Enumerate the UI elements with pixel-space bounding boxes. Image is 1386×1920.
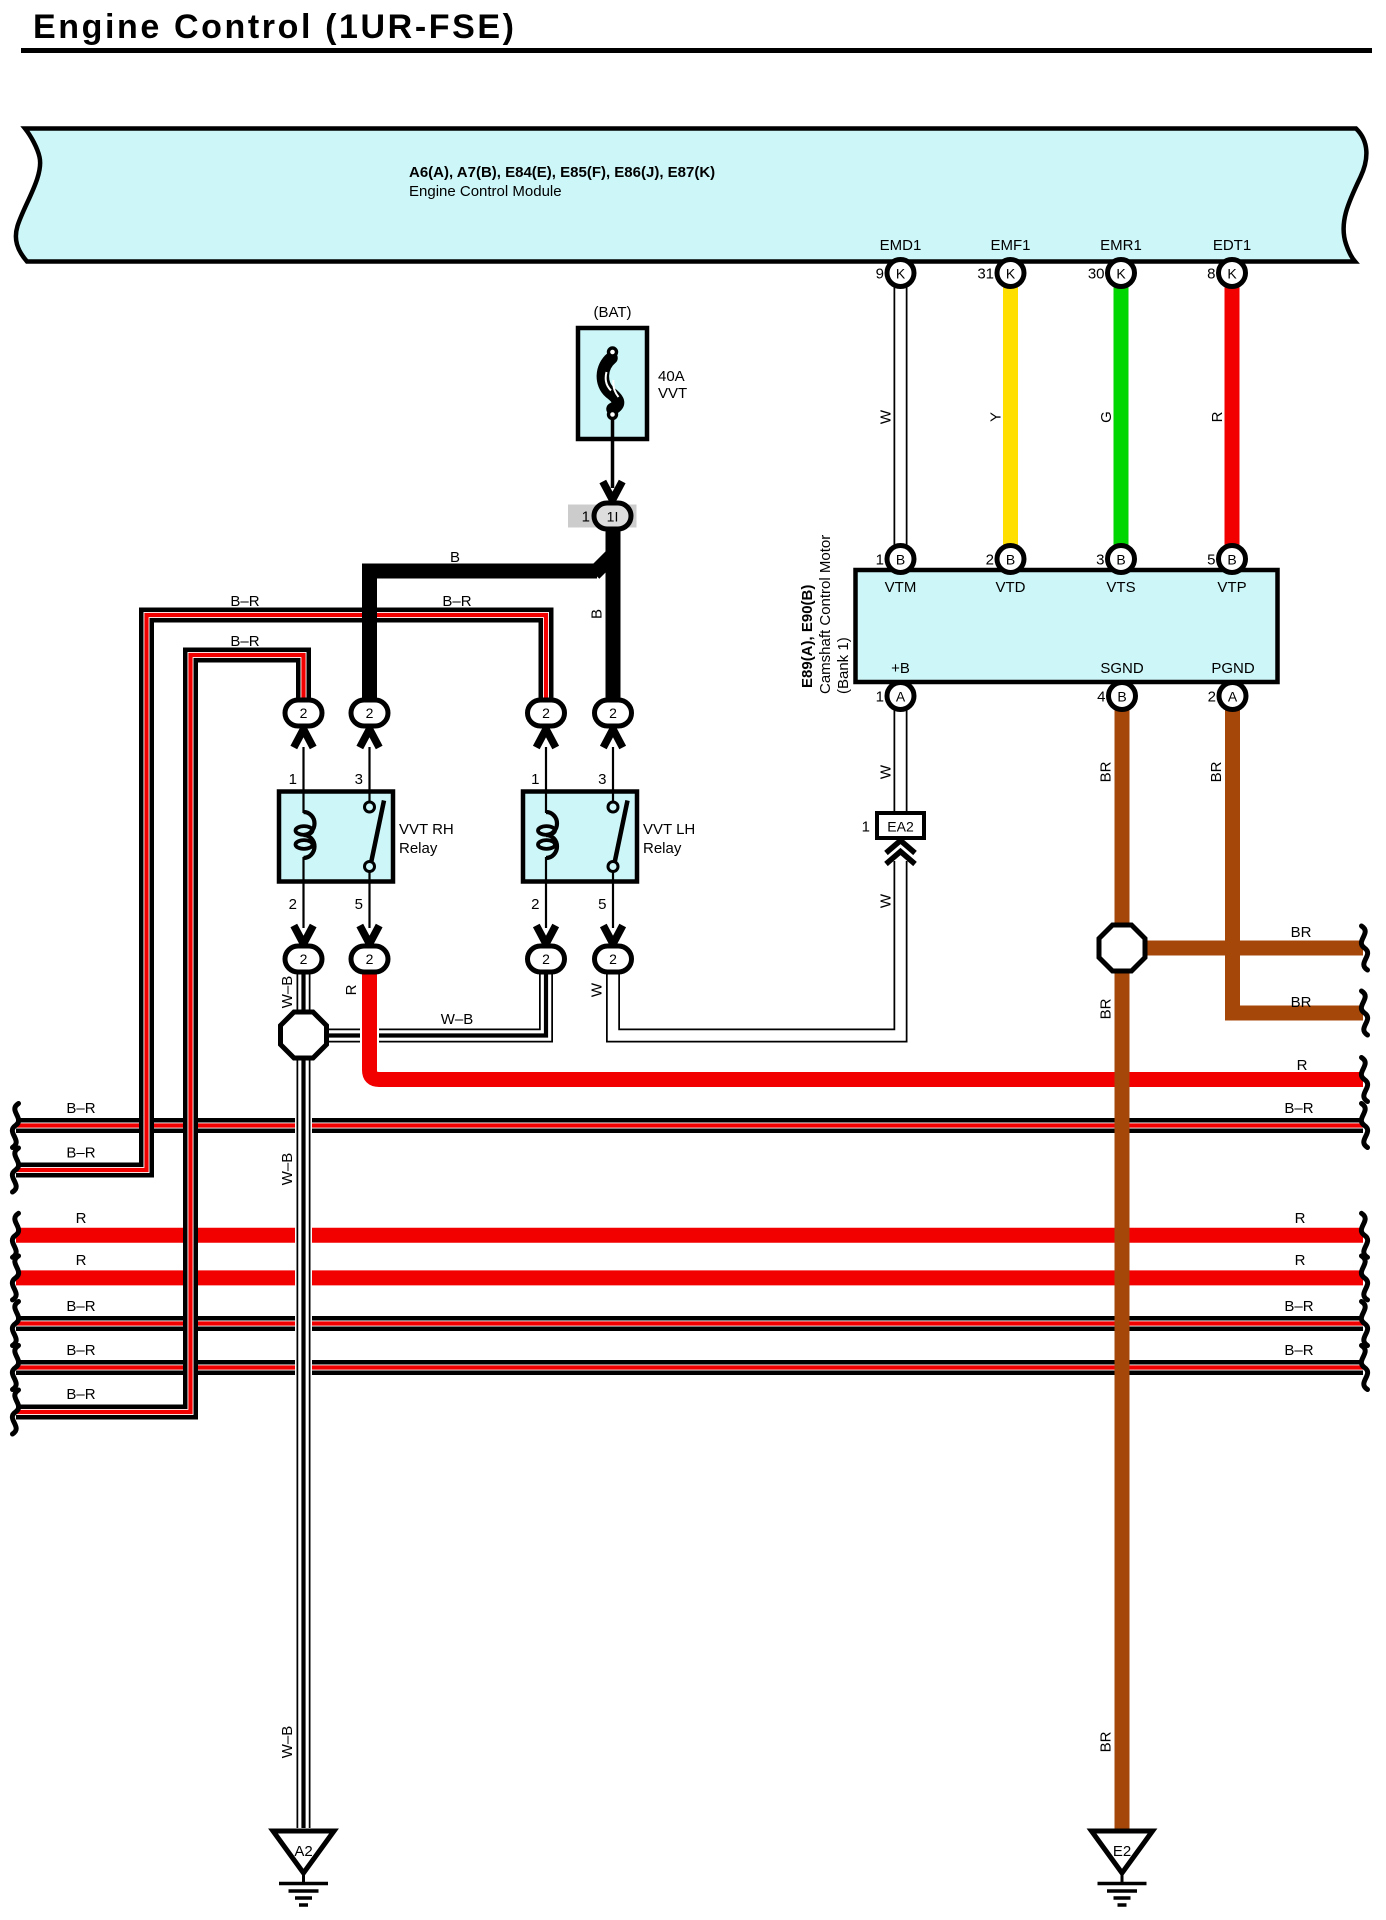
svg-text:Engine Control (1UR-FSE): Engine Control (1UR-FSE) [33,8,517,46]
svg-text:W–B: W–B [279,1726,296,1759]
fuse 40A VVT box [578,328,647,439]
svg-text:Camshaft Control Motor: Camshaft Control Motor [817,535,834,694]
svg-text:A2: A2 [294,1843,312,1860]
svg-text:PGND: PGND [1211,660,1255,677]
bus B-R page-link lower (full width) [16,1360,1363,1375]
wire BR: motor SGND to junction to ground E2 [1115,709,1130,1829]
svg-text:R: R [343,984,360,995]
svg-text:B–R: B–R [442,593,471,610]
Engine Control Module A6(A), A7(B), E84(E), E85(F), E86(J), E87(K) [16,129,1367,262]
motor pin PGND 2(A) [1219,683,1246,710]
svg-text:EMR1: EMR1 [1100,237,1142,254]
svg-text:G: G [1098,411,1115,423]
svg-text:W–B: W–B [279,976,296,1009]
wire B: branch to VVT RH relay pin 3 [370,571,598,701]
svg-text:A: A [1228,689,1238,705]
arrow from LH pin5 [603,926,622,944]
relay RH pin 5 lead [368,882,370,928]
svg-text:(Bank 1): (Bank 1) [835,637,852,694]
Camshaft Control Motor box E89(A), E90(B) (Bank 1) [856,570,1278,682]
arrow into LH pin1 oval [536,729,555,747]
arrow from RH pin2 [294,926,313,944]
svg-text:VVT: VVT [658,385,687,402]
arrow from LH pin2 [536,926,555,944]
junction octagon BR [1099,925,1145,971]
svg-text:2: 2 [531,896,539,913]
svg-text:VTD: VTD [996,579,1026,596]
bus B-R page-link middle (full width) [16,1316,1363,1331]
wire R white margin at W-B crossing [360,1024,379,1048]
relay RH pin 1 lead [302,747,304,791]
wire B diagonal joint [594,554,614,574]
svg-text:1: 1 [531,771,539,788]
relay RH pin 2 lead [302,882,304,928]
svg-text:B–R: B–R [1284,1298,1313,1315]
wire B-R: to VVT RH relay pin 1 and left page-link bus (bottom) [16,655,304,1412]
svg-text:1: 1 [582,509,590,526]
svg-text:W: W [878,893,895,908]
motor pin SGND 4(B) [1109,683,1136,710]
ground A2 [273,1831,334,1905]
wire R: ECM EDT1 to motor VTP [1225,287,1240,545]
connector oval 2 above LH pin3 [595,700,632,726]
svg-text:R: R [76,1252,87,1269]
ECM pin EMR1 30(K) [1108,260,1135,287]
svg-text:B–R: B–R [230,633,259,650]
arrow from RH pin5 [360,926,379,944]
svg-text:2: 2 [986,552,994,569]
svg-text:E89(A), E90(B): E89(A), E90(B) [799,585,816,688]
svg-text:EA2: EA2 [887,819,914,835]
svg-text:1: 1 [876,689,884,706]
wire W: ECM EMD1 to motor VTM [894,287,908,545]
motor pin VTP 5(B) [1219,546,1246,573]
svg-text:Engine Control Module: Engine Control Module [409,183,562,200]
svg-text:5: 5 [598,896,606,913]
wire W-B: junction to relay LH pin 2 [326,971,546,1036]
svg-text:W: W [589,982,606,997]
wire fuse to connector 1I [611,419,615,488]
wire W: motor +B to connector EA2 [894,709,908,812]
svg-text:B: B [1116,552,1125,568]
svg-text:3: 3 [598,771,606,788]
svg-text:B: B [1117,689,1126,705]
svg-text:+B: +B [891,660,910,677]
relay LH pin 2 lead [545,882,547,928]
svg-text:1: 1 [289,771,297,788]
svg-text:R: R [1295,1210,1306,1227]
relay RH switch [368,791,370,802]
wire Y: ECM EMF1 to motor VTD [1003,287,1018,545]
svg-text:A: A [896,689,906,705]
svg-text:R: R [1297,1057,1308,1074]
svg-text:R: R [1295,1252,1306,1269]
motor pin VTD 2(B) [997,546,1024,573]
junction octagon W-B [281,1012,327,1058]
svg-text:Relay: Relay [643,840,682,857]
svg-text:2: 2 [1208,689,1216,706]
svg-text:30: 30 [1088,266,1105,283]
svg-text:R: R [1209,411,1226,422]
svg-text:3: 3 [1096,552,1104,569]
svg-text:R: R [76,1210,87,1227]
svg-text:3: 3 [355,771,363,788]
svg-text:BR: BR [1098,1731,1115,1752]
svg-text:B: B [1227,552,1236,568]
svg-text:5: 5 [1207,552,1215,569]
wire W-B: relay RH pin 2 to junction to ground A2 [295,971,312,1828]
connector oval 2 above LH pin1 [528,700,565,726]
relay LH pin 5 lead [612,882,614,928]
ground E2 [1092,1831,1153,1905]
svg-text:B: B [896,552,905,568]
title underline [21,48,1372,53]
svg-text:EMF1: EMF1 [990,237,1030,254]
bus R page-link lower (full width) [16,1270,1363,1285]
motor pin VTS 3(B) [1108,546,1135,573]
svg-text:1I: 1I [607,509,619,525]
svg-text:SGND: SGND [1100,660,1144,677]
connector EA2 chevrons [886,841,915,854]
svg-text:W: W [878,764,895,779]
VVT RH Relay box [279,792,393,882]
svg-text:5: 5 [355,896,363,913]
ECM pin EMF1 31(K) [997,260,1024,287]
wire B: connector 1I down to VVT LH relay pin 3 [606,527,621,701]
svg-text:B–R: B–R [66,1145,95,1162]
relay RH pin 3 lead [368,747,370,791]
svg-text:BR: BR [1291,924,1312,941]
connector oval 2 below LH pin5 [595,946,632,972]
svg-text:B–R: B–R [66,1342,95,1359]
svg-text:2: 2 [289,896,297,913]
svg-text:B–R: B–R [1284,1100,1313,1117]
svg-text:B: B [1006,552,1015,568]
svg-text:VVT RH: VVT RH [399,821,454,838]
svg-text:A6(A), A7(B), E84(E), E85(F),: A6(A), A7(B), E84(E), E85(F), E86(J), E8… [409,164,715,181]
svg-text:40A: 40A [658,368,685,385]
connector 1I gray backdrop [568,505,637,528]
svg-text:Relay: Relay [399,840,438,857]
bus B-R page-link top (full width) [16,1118,1363,1133]
svg-text:8: 8 [1207,266,1215,283]
connector oval 2 below LH pin2 [528,946,565,972]
relay LH pin 3 lead [612,747,614,791]
svg-text:Y: Y [988,412,1005,422]
svg-text:B–R: B–R [66,1100,95,1117]
wire W: EA2 to VVT LH relay pin 5 [613,861,901,1036]
arrow into RH pin3 oval [360,729,379,747]
svg-text:EMD1: EMD1 [880,237,922,254]
svg-text:W: W [878,409,895,424]
svg-text:EDT1: EDT1 [1213,237,1251,254]
svg-text:K: K [1227,266,1237,282]
ECM pin EDT1 8(K) [1219,260,1246,287]
connector oval 2 above RH pin1 [285,700,322,726]
svg-text:VVT LH: VVT LH [643,821,695,838]
VVT LH Relay box [523,792,637,882]
page-link curls right edge [1361,926,1367,970]
connector oval 2 above RH pin3 [351,700,388,726]
svg-text:(BAT): (BAT) [593,304,631,321]
wire R from VVT RH relay pin 5 to right page-link [370,969,1364,1080]
motor pin +B 1(A) [887,683,914,710]
svg-text:31: 31 [977,266,994,283]
svg-text:VTP: VTP [1217,579,1246,596]
arrow into LH pin3 oval [603,729,622,747]
svg-text:E2: E2 [1113,1843,1131,1860]
svg-text:K: K [1006,266,1016,282]
svg-text:W–B: W–B [441,1011,474,1028]
wire BR: motor PGND to right page-link [1233,709,1364,1013]
relay LH pin 1 lead [545,747,547,791]
page-link curls left edge [12,1104,18,1148]
arrow into 1I [603,482,622,500]
svg-text:9: 9 [876,266,884,283]
svg-text:4: 4 [1097,689,1105,706]
bus R page-link upper (full width) [16,1228,1363,1243]
svg-text:B–R: B–R [230,593,259,610]
svg-text:K: K [1116,266,1126,282]
ECM pin EMD1 9(K) [887,260,914,287]
svg-text:B–R: B–R [66,1386,95,1403]
wire BR: junction to right page-link [1122,941,1363,956]
connector oval 2 below RH pin2 [285,946,322,972]
svg-text:BR: BR [1098,998,1115,1019]
svg-text:BR: BR [1291,994,1312,1011]
connector 1I oval [594,503,631,529]
relay RH coil [302,791,304,813]
arrow into RH pin1 oval [294,729,313,747]
wire B-R: ECM feed to VVT LH relay pin 1 and left page-link bus [16,615,546,1170]
svg-text:BR: BR [1208,761,1225,782]
connector oval 2 below RH pin5 [351,946,388,972]
svg-text:B–R: B–R [66,1298,95,1315]
svg-text:BR: BR [1098,761,1115,782]
svg-text:VTS: VTS [1106,579,1135,596]
svg-text:K: K [896,266,906,282]
fuse element symbol [603,358,618,409]
svg-text:B: B [589,609,606,619]
svg-text:1: 1 [862,819,870,836]
motor pin VTM 1(B) [887,546,914,573]
wire G: ECM EMR1 to motor VTS [1114,287,1129,545]
connector EA2 box [877,813,924,838]
svg-text:VTM: VTM [885,579,917,596]
svg-text:B–R: B–R [1284,1342,1313,1359]
relay LH coil [545,791,547,813]
svg-text:W–B: W–B [279,1153,296,1186]
relay LH switch [612,791,614,802]
svg-text:B: B [450,549,460,566]
svg-text:1: 1 [876,552,884,569]
